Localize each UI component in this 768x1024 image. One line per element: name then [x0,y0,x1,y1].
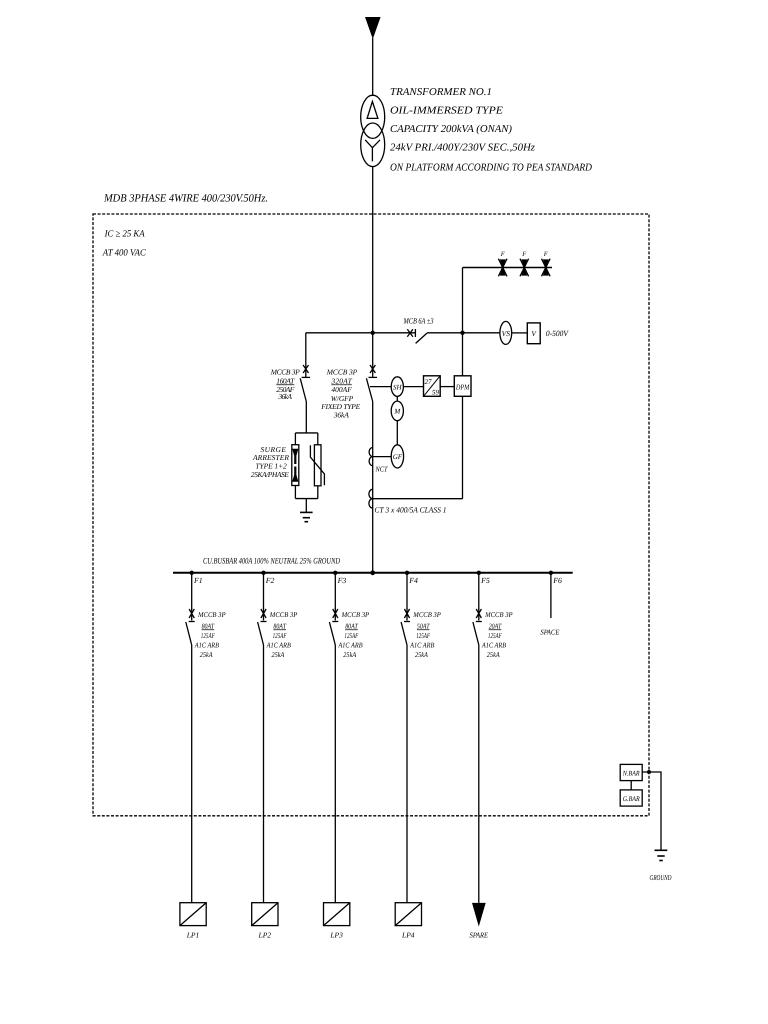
svg-text:25kA: 25kA [487,650,500,659]
svg-text:36kA: 36kA [277,392,292,401]
wire F2 to panel [263,645,265,903]
svg-text:125AF: 125AF [273,631,287,640]
ground arrester [300,512,313,521]
svg-text:A1C ARB: A1C ARB [409,641,435,650]
svg-text:A1C ARB: A1C ARB [194,641,220,650]
wire lamp branch horizontal [463,267,553,269]
svg-text:A1C ARB: A1C ARB [338,641,364,650]
meter DPM [454,376,471,397]
incoming supply arrow [365,17,381,39]
svg-text:MCCB 3P: MCCB 3P [484,610,513,619]
svg-text:20AT: 20AT [489,621,502,630]
node main line tap [371,331,375,335]
node feeder F2 [261,571,265,575]
svg-text:59: 59 [432,388,440,396]
ground fault relay GF [391,445,403,468]
F5 MCCB labels [481,610,513,659]
wire incoming to transformer [372,38,374,96]
wire feeder F3 drop [334,573,336,609]
svg-text:MCCB 3P: MCCB 3P [270,368,300,377]
svg-text:MCCB 3P: MCCB 3P [341,610,370,619]
wire F1 to panel [191,645,193,903]
svg-text:LP3: LP3 [329,930,343,939]
wire transformer to MDB [372,167,374,378]
svg-text:MCCB 3P: MCCB 3P [326,368,358,377]
pilot lamp 1 [498,259,507,277]
breaker F5 [473,608,482,645]
breaker F4 [401,608,410,645]
wire CT to DPM branch [373,498,463,500]
wire F3 to panel [334,645,336,903]
MDB enclosure dashed border [93,214,649,816]
svg-text:F4: F4 [408,576,418,585]
F2 MCCB labels [266,610,298,659]
svg-text:A1C ARB: A1C ARB [266,641,292,650]
svg-text:MCCB 3P: MCCB 3P [197,610,226,619]
MCCB 160AT breaker [300,365,310,402]
motor operator M [391,401,403,421]
panel LP4 [395,903,421,926]
panel LP1 [180,903,206,926]
svg-text:24kV PRI./400Y/230V SEC.,50Hz: 24kV PRI./400Y/230V SEC.,50Hz [390,143,535,154]
surge arrester assembly [292,433,325,513]
svg-text:125AF: 125AF [344,631,358,640]
wire SH branch [370,386,391,388]
svg-text:25kA: 25kA [343,650,356,659]
svg-text:F6: F6 [552,576,562,585]
svg-text:GF: GF [393,453,403,461]
node feeder F1 [190,571,194,575]
wire main bus tap horizontal [306,332,416,334]
transformer wye symbol [365,140,380,162]
node busbar main [370,570,375,575]
wire feeder F4 drop [406,573,408,609]
wire F4 to panel [406,645,408,903]
svg-text:IC ≥ 25 KA: IC ≥ 25 KA [104,229,145,239]
svg-text:CU.BUSBAR 400A 100% NEUTRAL 25: CU.BUSBAR 400A 100% NEUTRAL 25% GROUND [203,556,341,566]
wire lamp branch vertical [462,268,464,499]
MCB 6A switch [407,329,427,343]
voltmeter V [527,323,540,344]
arrester MCCB labels [270,368,300,402]
svg-text:F2: F2 [265,576,275,585]
svg-text:SPACE: SPACE [540,627,559,636]
ground MDB [655,850,668,860]
wire feeder F6 stub [550,573,552,618]
svg-text:F5: F5 [480,576,490,585]
wire N.BAR to G.BAR [630,781,632,790]
relay 27/59 [424,376,441,397]
svg-text:A1C ARB: A1C ARB [481,641,507,650]
svg-text:80AT: 80AT [345,621,358,630]
svg-text:MCCB 3P: MCCB 3P [269,610,298,619]
svg-text:VS: VS [502,329,511,338]
svg-text:400AF: 400AF [331,385,352,394]
svg-text:36kA: 36kA [333,411,349,420]
svg-text:0-500V: 0-500V [546,329,569,338]
svg-text:80AT: 80AT [273,621,286,630]
svg-text:125AF: 125AF [488,631,502,640]
svg-text:M: M [393,408,401,416]
wire M to GF [396,421,398,445]
node feeder F6 [549,571,553,575]
wire MCCB to arrester [305,402,307,433]
breaker F1 [186,608,195,645]
svg-text:25kA: 25kA [415,650,428,659]
transformer T1 primary winding [361,95,385,138]
pilot lamp 2 [520,259,529,277]
CT metering [369,489,373,508]
wire MCB to meter branch [427,332,500,334]
CT NCT [369,448,373,466]
svg-text:GROUND: GROUND [650,873,672,882]
svg-text:LP1: LP1 [186,930,200,939]
wire feeder F1 drop [191,573,193,609]
F4 MCCB labels [409,610,441,659]
svg-text:125AF: 125AF [201,631,215,640]
svg-text:F3: F3 [337,576,347,585]
wire feeder F2 drop [263,573,265,609]
breaker F3 [329,608,338,645]
svg-text:OIL-IMMERSED TYPE: OIL-IMMERSED TYPE [390,105,504,116]
svg-text:27: 27 [425,378,433,386]
svg-text:F1: F1 [193,576,203,585]
svg-text:50AT: 50AT [417,621,430,630]
panel LP2 [252,903,278,926]
wire VS to V [512,332,528,334]
transformer spec text [390,87,592,174]
svg-text:25KA/PHASE: 25KA/PHASE [251,470,289,479]
node feeder F5 [477,571,481,575]
svg-text:N.BAR: N.BAR [622,769,641,777]
spare arrow [472,903,486,927]
svg-text:LP2: LP2 [258,930,272,939]
svg-text:80AT: 80AT [202,621,215,630]
wire N.BAR to ground [642,772,661,850]
svg-text:ON PLATFORM ACCORDING TO PEA S: ON PLATFORM ACCORDING TO PEA STANDARD [390,163,592,174]
surge arrester labels [251,445,290,479]
svg-text:125AF: 125AF [416,631,430,640]
node feeder F4 [405,571,409,575]
node ground wire [647,770,651,774]
wire relay to DPM [440,386,454,388]
transformer delta symbol [367,102,378,119]
wire branch arrester [305,333,307,378]
svg-text:MCB 6A ±3: MCB 6A ±3 [403,316,434,325]
shunt trip SH [391,377,403,397]
svg-text:LP4: LP4 [401,930,415,939]
svg-text:SPARE: SPARE [470,930,489,939]
busbar [173,572,573,574]
svg-text:NCT: NCT [375,465,389,474]
main MCCB labels [320,368,360,420]
ground bar box [620,790,642,806]
svg-text:CAPACITY 200kVA (ONAN): CAPACITY 200kVA (ONAN) [390,124,513,135]
wire MCCB to busbar [372,402,374,573]
svg-text:CT 3 x 400/5A CLASS 1: CT 3 x 400/5A CLASS 1 [375,506,447,515]
svg-text:25kA: 25kA [272,650,285,659]
svg-text:TRANSFORMER NO.1: TRANSFORMER NO.1 [390,87,492,98]
svg-text:25kA: 25kA [200,650,213,659]
panel LP3 [324,903,350,926]
node feeder F3 [333,571,337,575]
voltmeter selector switch VS [500,321,512,344]
node meter branch [460,331,464,335]
svg-text:AT 400 VAC: AT 400 VAC [102,248,147,258]
wire F5 to spare arrow [478,645,480,903]
neutral bar box [620,764,642,780]
wire NCT to GF [373,456,392,458]
svg-text:G.BAR: G.BAR [623,795,641,803]
svg-text:MCCB 3P: MCCB 3P [412,610,441,619]
svg-text:MDB 3PHASE 4WIRE 400/230V.50Hz: MDB 3PHASE 4WIRE 400/230V.50Hz. [103,193,268,205]
F3 MCCB labels [338,610,370,659]
transformer T1 secondary winding [361,123,385,167]
wire SH to relay [403,386,423,388]
wire SH to M [396,396,398,401]
svg-text:DPM: DPM [455,382,470,391]
breaker F2 [258,608,267,645]
svg-text:SH: SH [393,383,403,391]
wire feeder F5 drop [478,573,480,609]
main MCCB 320AT breaker [366,365,377,402]
F1 MCCB labels [194,610,226,659]
pilot lamp 3 [542,259,551,277]
